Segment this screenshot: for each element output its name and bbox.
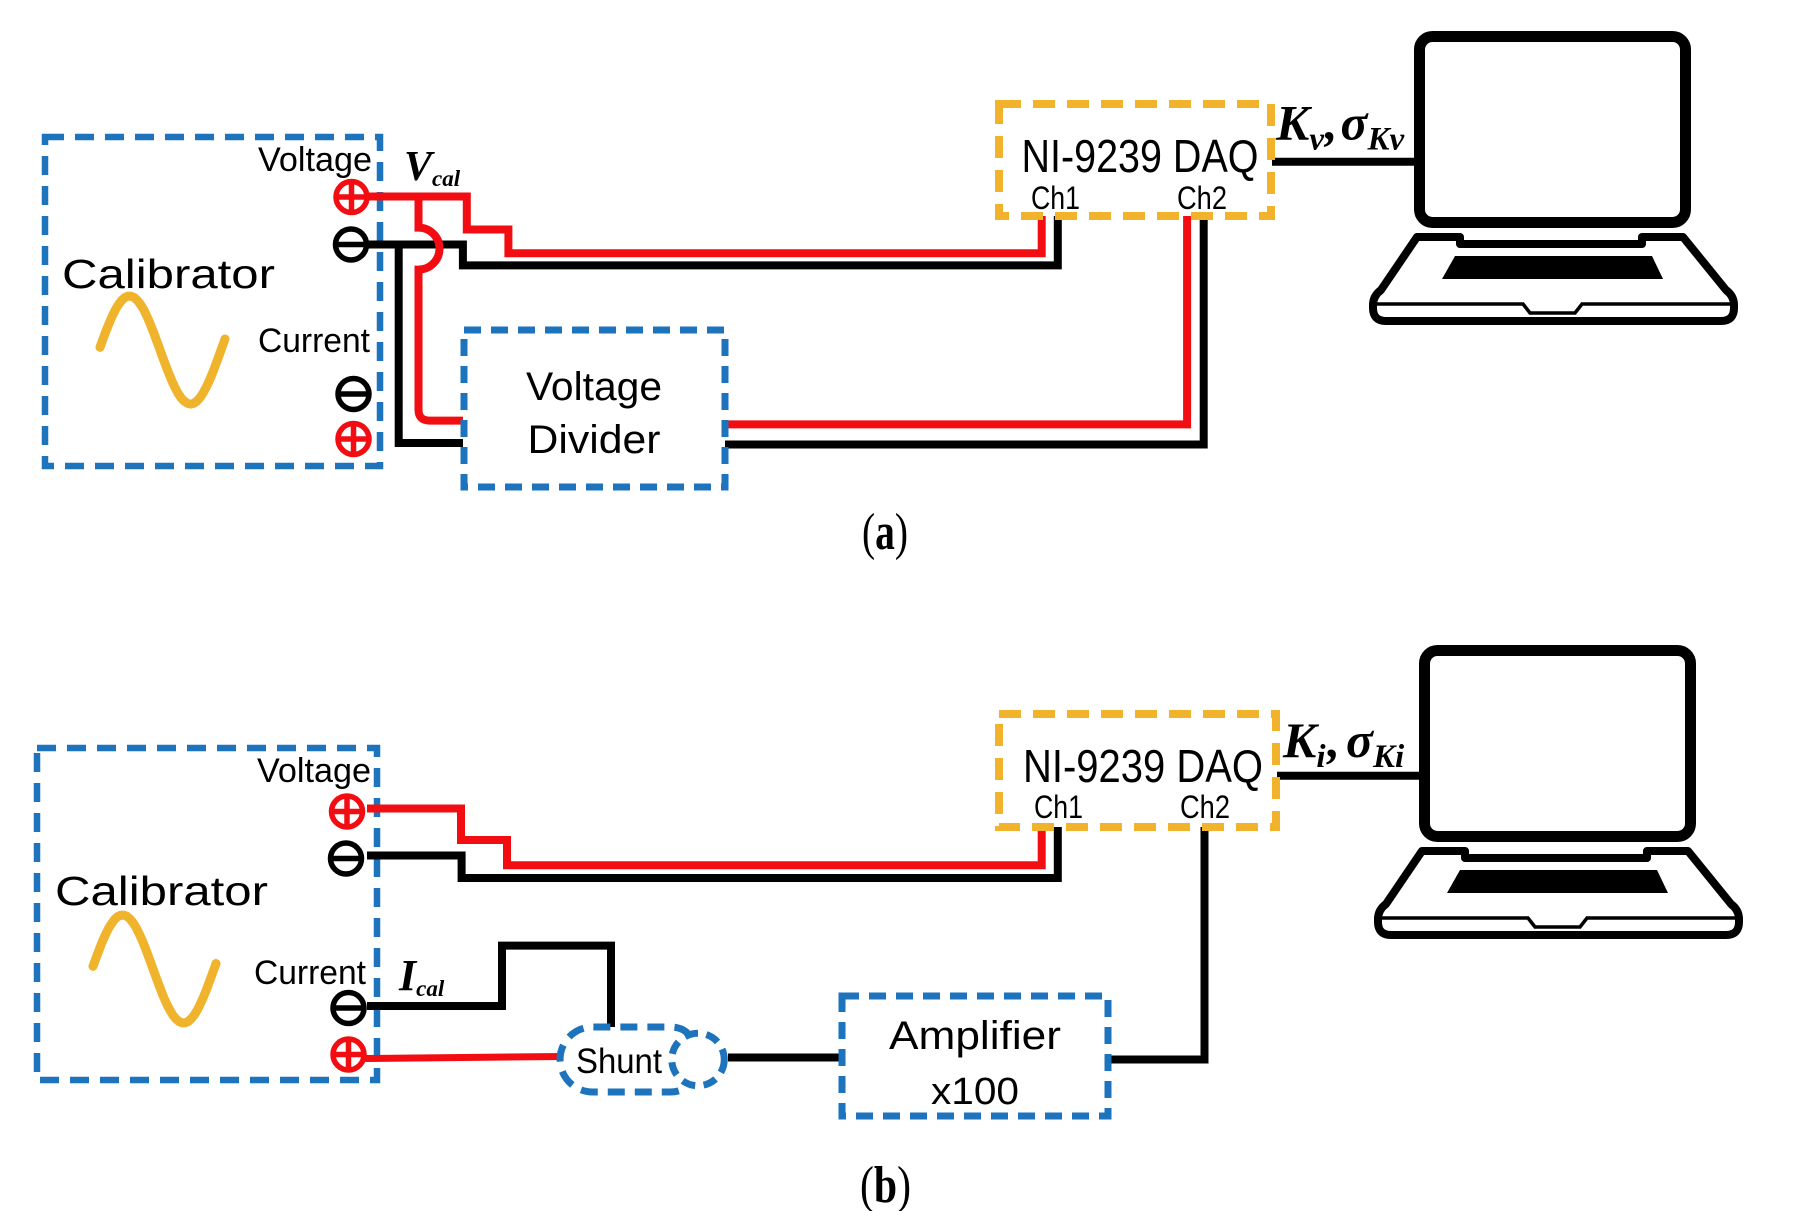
svg-text:Shunt: Shunt [576,1042,662,1081]
svg-text:x100: x100 [931,1071,1019,1113]
svg-text:(a): (a) [862,504,908,561]
svg-text:NI-9239 DAQ: NI-9239 DAQ [1022,130,1259,182]
svg-text:Ch2: Ch2 [1180,789,1230,825]
svg-text:NI-9239 DAQ: NI-9239 DAQ [1023,740,1263,792]
svg-text:Calibrator: Calibrator [62,251,275,297]
svg-text:(b): (b) [860,1157,911,1211]
svg-text:Current: Current [254,954,367,992]
svg-text:Current: Current [258,322,371,360]
svg-text:Voltage: Voltage [526,365,662,409]
svg-text:Voltage: Voltage [258,141,372,179]
svg-text:Calibrator: Calibrator [55,868,268,914]
svg-text:Ch1: Ch1 [1031,180,1080,216]
svg-text:Ch1: Ch1 [1034,789,1083,825]
svg-text:Voltage: Voltage [257,752,371,790]
svg-text:Ch2: Ch2 [1177,180,1227,216]
svg-text:Amplifier: Amplifier [889,1014,1061,1058]
svg-text:Divider: Divider [528,418,661,462]
